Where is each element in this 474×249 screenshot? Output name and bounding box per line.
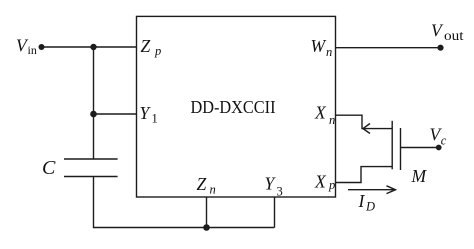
svg-text:X: X: [314, 172, 327, 192]
svg-text:p: p: [154, 44, 161, 58]
wire Y3 pin: [274, 197, 276, 228]
op-amp U1 DD-DXCCII block: [137, 16, 336, 197]
wire Y1: [94, 113, 137, 115]
svg-text:DD-DXCCII: DD-DXCCII: [191, 97, 276, 117]
svg-text:n: n: [210, 183, 216, 197]
wire source to Xp: [336, 167, 393, 183]
svg-text:n: n: [326, 45, 332, 59]
svg-text:Z: Z: [141, 36, 151, 56]
wire capacitor to bottom rail: [94, 177, 275, 228]
capacitor C bottom plate: [64, 176, 118, 178]
svg-text:X: X: [314, 103, 327, 123]
node Vc terminal dot: [436, 145, 442, 151]
arrow ID: [348, 189, 395, 191]
arrow on drain wire: [363, 124, 370, 134]
svg-text:n: n: [329, 113, 335, 127]
svg-text:I: I: [358, 191, 366, 211]
svg-text:C: C: [42, 157, 56, 179]
svg-text:D: D: [365, 200, 375, 214]
wire Vin to Zp: [42, 46, 137, 48]
wire Zn pin: [206, 197, 208, 228]
svg-text:1: 1: [152, 112, 158, 126]
svg-text:M: M: [411, 166, 428, 186]
junction dot Zp: [90, 44, 96, 50]
node Vin terminal dot: [39, 44, 45, 50]
transistor M gate bar: [400, 128, 402, 170]
svg-text:Z: Z: [197, 174, 207, 194]
svg-text:c: c: [441, 134, 447, 148]
wire Xn to transistor drain: [336, 115, 393, 128]
svg-text:out: out: [444, 28, 464, 43]
svg-text:W: W: [311, 36, 327, 56]
svg-text:in: in: [28, 43, 37, 57]
svg-text:p: p: [328, 178, 335, 192]
svg-text:3: 3: [277, 185, 283, 199]
wire Wn to Vout: [336, 47, 441, 49]
wire gate to Vc: [401, 147, 439, 149]
node Vout terminal dot: [437, 45, 443, 51]
capacitor C top plate: [64, 158, 118, 160]
wire junction vertical to capacitor: [93, 47, 95, 159]
junction dot Zn: [203, 224, 210, 231]
transistor M channel bar: [391, 121, 393, 170]
junction dot Y1: [90, 111, 97, 118]
